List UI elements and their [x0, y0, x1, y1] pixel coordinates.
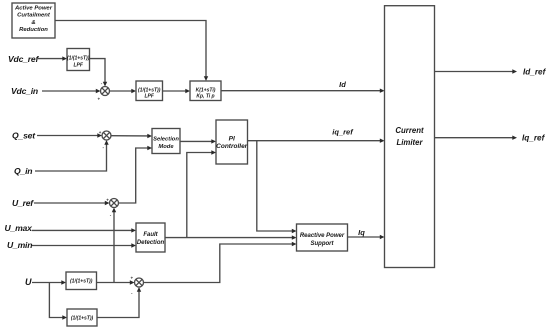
wire: upper LPF to S4 — [97, 280, 135, 284]
block Reactive Power Support — [297, 224, 348, 251]
svg-text:U_min: U_min — [7, 240, 32, 250]
wire Iq: RPS to Current Limiter — [348, 235, 385, 239]
svg-text:Curtailment: Curtailment — [17, 13, 51, 19]
wire: Current Limiter to Id_ref output — [435, 69, 518, 73]
svg-text:Reduction: Reduction — [19, 27, 48, 33]
wire: S2 to Selection Mode — [111, 134, 152, 138]
wire: Vdc_in to S1 — [42, 89, 101, 93]
svg-text:-: - — [131, 291, 133, 296]
svg-text:PI: PI — [229, 136, 235, 143]
wire: S3 up to Selection Mode input 2 — [119, 146, 153, 203]
block U LPF lower — [67, 309, 97, 326]
svg-text:Controller: Controller — [216, 143, 248, 150]
wire: lower LPF to S4 bottom — [97, 287, 141, 318]
wire: filtered U tap up to S3 bottom — [112, 208, 116, 283]
wire: U branch down to lower LPF — [49, 283, 67, 320]
wire: S1 to LPF2 — [110, 89, 137, 93]
svg-text:(1/(1+sT)): (1/(1+sT)) — [71, 316, 94, 322]
svg-text:(1/(1+sT)): (1/(1+sT)) — [138, 87, 161, 93]
wire: Fault Detection output to RPS input 2 — [165, 235, 297, 239]
wire: U_min to Fault Detection — [32, 243, 136, 247]
svg-text:Iq_ref: Iq_ref — [522, 134, 546, 143]
svg-text:Kp, Ti p: Kp, Ti p — [196, 93, 214, 99]
summing junction S1 — [101, 87, 110, 96]
svg-text:Q_in: Q_in — [14, 166, 32, 176]
block Current Limiter — [385, 6, 435, 268]
svg-text:+: + — [98, 97, 101, 102]
svg-text:Support: Support — [311, 241, 335, 247]
svg-text:Iq: Iq — [358, 228, 365, 237]
wire: APC output to K block top — [55, 21, 208, 82]
summing junction S2 — [102, 131, 111, 140]
svg-text:-: - — [101, 81, 103, 86]
svg-text:Vdc_in: Vdc_in — [11, 86, 38, 96]
svg-text:-: - — [110, 212, 112, 217]
svg-text:K(1+sTi): K(1+sTi) — [196, 87, 216, 93]
svg-text:+: + — [131, 276, 134, 281]
wire Id: K block to Current Limiter — [221, 89, 385, 93]
svg-text:Detection: Detection — [137, 240, 165, 246]
svg-text:-: - — [103, 145, 105, 150]
wire: Vdc_ref to LPF1 — [38, 56, 67, 60]
svg-text:Vdc_ref: Vdc_ref — [8, 54, 39, 64]
block K(1+sTi) Kp, Ti p — [190, 81, 221, 101]
svg-text:Id_ref: Id_ref — [523, 68, 547, 77]
wire: Q_in to S2 bottom — [35, 140, 109, 171]
wire: Q_set to S2 — [37, 133, 102, 137]
block: Active Power Curtailment & Reduction — [12, 3, 55, 38]
svg-text:LPF: LPF — [73, 62, 83, 68]
svg-text:Reactive Power: Reactive Power — [300, 233, 345, 239]
svg-text:Id: Id — [339, 80, 346, 89]
svg-text:&: & — [31, 20, 35, 26]
svg-text:Selection: Selection — [153, 137, 179, 143]
wire: U to upper LPF — [32, 280, 66, 284]
block Selection Mode — [152, 129, 180, 154]
svg-text:(1/(1+sT)): (1/(1+sT)) — [70, 279, 93, 285]
summing junction S3 — [110, 199, 119, 208]
block PI Controller — [216, 120, 248, 164]
wire: FD output branch up to PI Controller input 2 — [187, 150, 216, 237]
svg-text:LPF: LPF — [144, 93, 154, 99]
summing junction S4 — [135, 278, 144, 287]
svg-text:Mode: Mode — [158, 144, 174, 150]
svg-text:Current: Current — [395, 126, 424, 135]
svg-text:U_max: U_max — [5, 223, 34, 233]
block LPF1 — [67, 49, 90, 71]
block Fault Detection — [136, 223, 165, 252]
svg-text:Active Power: Active Power — [14, 5, 53, 11]
svg-text:Q_set: Q_set — [12, 131, 36, 141]
svg-text:iq_ref: iq_ref — [332, 127, 354, 136]
wire: S4 to RPS input 3 — [144, 242, 297, 283]
wire iq_ref: PI Controller to Current Limiter — [248, 139, 385, 143]
wire: LPF2 to K block — [163, 89, 191, 93]
wire: Current Limiter to Iq_ref output — [435, 136, 518, 140]
block LPF2 — [136, 81, 163, 101]
svg-text:+: + — [99, 130, 102, 135]
wire: U_max to Fault Detection — [32, 228, 136, 232]
wire: U_ref to S3 — [34, 201, 110, 205]
block U LPF upper — [66, 272, 97, 290]
wire: Selection Mode to PI Controller — [180, 139, 216, 143]
svg-text:(1/(1+sT)): (1/(1+sT)) — [67, 55, 90, 61]
wire: LPF1 to summing junction S1 top — [90, 59, 108, 87]
svg-text:+: + — [106, 197, 109, 202]
svg-text:U_ref: U_ref — [12, 198, 34, 208]
wire: iq_ref branch down to Reactive Power Support input 1 — [257, 141, 297, 234]
svg-text:U: U — [25, 277, 32, 287]
svg-text:Limiter: Limiter — [397, 138, 424, 147]
svg-text:Fault: Fault — [143, 232, 158, 238]
